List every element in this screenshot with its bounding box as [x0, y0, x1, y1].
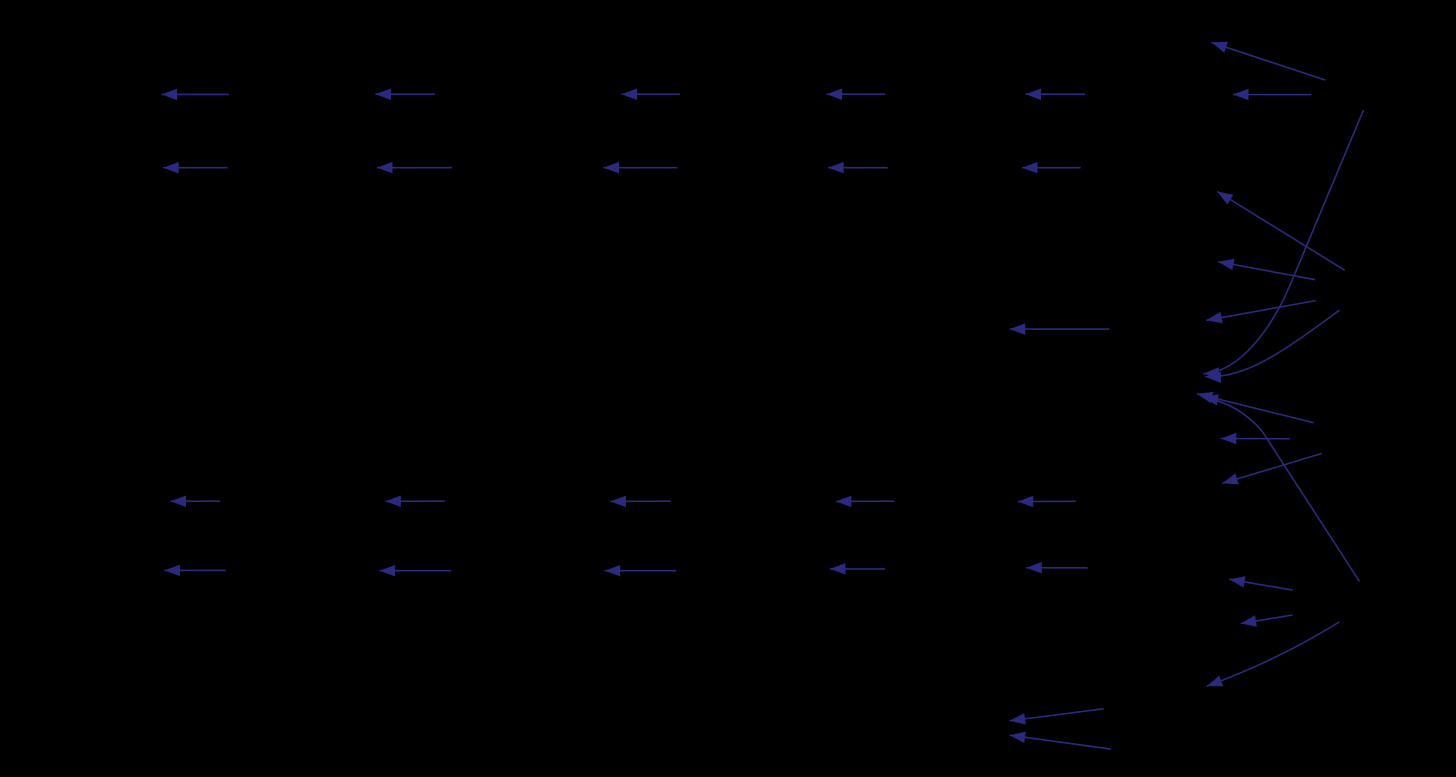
fan arrow A12 [1229, 576, 1292, 590]
fan arrow A3 (long curve, cluster A upper head) [1204, 110, 1364, 379]
arrow r1c1 [162, 89, 229, 101]
arrow r1c2 [375, 89, 435, 101]
arrow r1c5 [1026, 89, 1086, 101]
arrow r4c3 [605, 565, 676, 577]
arrow r4c2 [380, 565, 452, 577]
fan arrow A9 (cluster B upper head) [1197, 392, 1314, 423]
fan arrow A5 [1218, 259, 1315, 280]
arrow r1c6 [1233, 89, 1311, 101]
arrow r3c2 [385, 496, 445, 508]
fan arrow A7 (cluster A lower head) [1206, 310, 1340, 383]
fan arrow A4 [1217, 192, 1344, 271]
arrow r2c4 [828, 162, 887, 174]
arrow r3c4 [836, 496, 894, 508]
fan arrow A14 (curved, bottom right) [1207, 622, 1340, 686]
arrow bottom-1 [1010, 709, 1104, 725]
arrow r3c1 [171, 496, 221, 508]
arrow r2c2 [377, 162, 452, 174]
fan arrow A13 [1241, 615, 1293, 627]
arrow r2c3 [604, 162, 678, 174]
arrow mid-right [1010, 323, 1109, 335]
arrow r2c1 [163, 162, 227, 174]
arrow r3c5 [1018, 496, 1076, 508]
arrow r4c5 [1026, 562, 1087, 574]
arrow r2c5 [1022, 162, 1081, 174]
arrow right-mid-2 [1221, 433, 1290, 445]
arrow r1c3 [622, 89, 680, 101]
fan arrow A6 [1206, 301, 1315, 324]
arrow r4c4 [830, 563, 885, 575]
fan arrow A10 (curve from bottom label, cluster B lower head) [1203, 394, 1360, 581]
arrow bottom-2 [1010, 732, 1111, 750]
arrow r4c1 [164, 565, 225, 577]
fan arrow A1 [1211, 42, 1325, 80]
arrow r3c3 [610, 496, 670, 508]
fan arrow A11 [1222, 454, 1322, 485]
arrow r1c4 [827, 89, 886, 101]
